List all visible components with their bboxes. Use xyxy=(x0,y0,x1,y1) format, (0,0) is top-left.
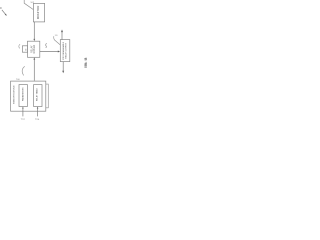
svg-text:DRIVER: DRIVER xyxy=(34,44,36,53)
svg-text:120: 120 xyxy=(55,35,58,37)
back box E2 (stacked behind) xyxy=(13,84,48,108)
arrow out of C top xyxy=(61,32,63,40)
lead line 120 to C xyxy=(54,36,60,45)
svg-text:RELAY TABLE: RELAY TABLE xyxy=(36,87,39,101)
box C: programmable relay xyxy=(60,40,70,62)
inner box F2 xyxy=(34,85,42,107)
svg-text:702: 702 xyxy=(21,117,26,120)
arrowhead into box C left xyxy=(58,51,60,53)
lead 704 from below xyxy=(37,108,39,117)
svg-text:MEMORY DEVICE: MEMORY DEVICE xyxy=(13,85,15,104)
lead 702 from below xyxy=(22,108,24,117)
wire B to C xyxy=(40,51,59,53)
squiggle lead near wire B-E xyxy=(22,66,25,75)
squiggle lead left of port box xyxy=(19,44,20,48)
svg-text:MONITOR: MONITOR xyxy=(36,6,40,20)
memory device box E xyxy=(11,81,46,111)
box B: relay driver xyxy=(28,41,40,57)
svg-text:FIG. 11: FIG. 11 xyxy=(84,57,88,67)
arrowhead into B bottom xyxy=(33,57,35,59)
wire B to memory box E xyxy=(33,59,35,81)
box A: monitor xyxy=(33,3,44,22)
lead arrow for 100 xyxy=(2,10,6,14)
arrowhead into box B top xyxy=(33,39,35,41)
wire A to B xyxy=(33,22,35,39)
tiny mark inside port box xyxy=(25,49,27,51)
svg-text:PARAMETERS: PARAMETERS xyxy=(22,87,25,101)
svg-text:704: 704 xyxy=(35,117,40,120)
svg-text:RELAY OUTPUT: RELAY OUTPUT xyxy=(64,42,67,58)
wire into box A from top edge xyxy=(24,0,33,10)
arrow out of C bottom xyxy=(62,62,64,71)
inner box F1 xyxy=(19,85,27,107)
small port box on left of B xyxy=(22,46,27,52)
squiggle numeral right of B xyxy=(46,43,47,48)
